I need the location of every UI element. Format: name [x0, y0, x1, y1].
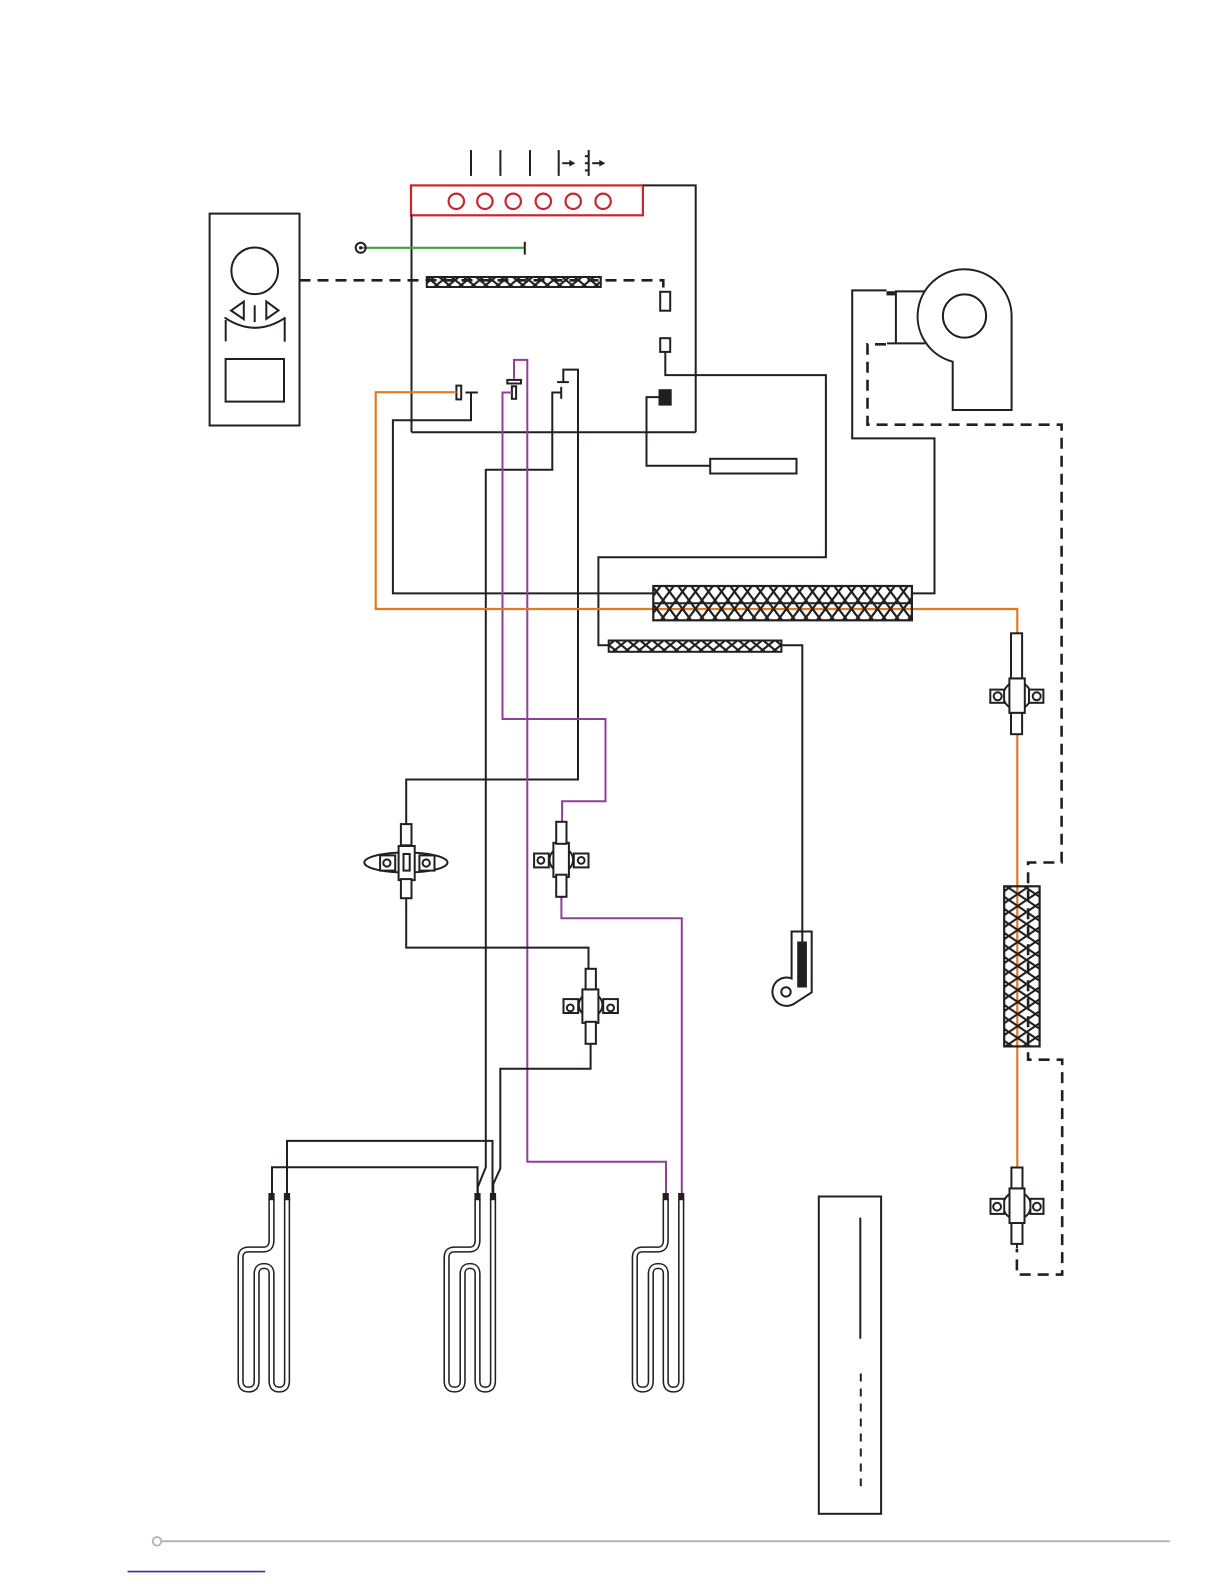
- switch S3 lower contact tick: [560, 387, 562, 399]
- thermostat T4 (high limit on orange): [990, 633, 1043, 734]
- terminal circle 5: [566, 194, 581, 209]
- console box (timer/control panel): [210, 214, 300, 426]
- wire S1 to heater element left: [393, 393, 653, 594]
- igniter coil strip (hatched): [609, 641, 782, 652]
- blower housing: [918, 269, 1012, 410]
- moisture sensor bar (tall rectangle): [819, 1197, 881, 1514]
- knob rotation symbol right triangle: [266, 302, 278, 320]
- console display window: [226, 359, 284, 402]
- orange wire T4 through vertical element to T5: [1016, 734, 1018, 1167]
- blower motor assembly: [887, 269, 1012, 410]
- buzzer: [710, 459, 796, 474]
- ground terminal tick: [524, 242, 526, 255]
- motor box: [887, 291, 925, 344]
- footer rule: [153, 1537, 1170, 1546]
- terminal circle 4: [536, 194, 551, 209]
- terminal circle 2: [477, 194, 492, 209]
- switch S3 moving contact bar: [557, 381, 569, 383]
- purple wire T2 bottom to coil 3 right: [561, 897, 681, 1194]
- resistor strip R1 (hatched): [427, 277, 601, 287]
- arc end tick right: [284, 318, 286, 342]
- motor terminal: [887, 291, 895, 295]
- wire coil1 left to coil2 left: [272, 1167, 478, 1194]
- switch S1 fixed contact: [465, 392, 478, 394]
- heater element main (hatched): [653, 586, 912, 620]
- switch S1 terminal (on orange): [456, 386, 461, 400]
- wire S3 lower to coil junction left: [478, 393, 561, 1195]
- terminal circle 1: [449, 194, 464, 209]
- dashed harness line console to control: [300, 280, 664, 292]
- ground wire (green): [361, 247, 525, 249]
- wire strip to igniter: [781, 645, 802, 944]
- timer cam tick 1: [470, 150, 472, 176]
- wire S3 top to thermostat T1 top: [406, 370, 578, 824]
- heater coil 3: [635, 1193, 685, 1390]
- terminal circle 3: [506, 194, 521, 209]
- igniter: [772, 932, 811, 1006]
- knob rotation arc: [225, 318, 286, 328]
- wire motor to heater element right: [852, 290, 934, 593]
- control box outline left edge: [411, 215, 413, 432]
- terminal block TB (red): [411, 185, 643, 215]
- timer cam tick 3: [529, 150, 531, 176]
- thermostat T3: [564, 969, 618, 1044]
- push-to-start switch S2 button bar: [507, 380, 521, 384]
- push-to-start switch S2 contact: [512, 386, 516, 399]
- timer cam tick 4 with arrow: [559, 150, 576, 176]
- wire relay to buzzer: [647, 397, 711, 466]
- control box outline bottom edge: [412, 431, 696, 433]
- thermostat T1 (cycling with bracket): [364, 824, 447, 898]
- thermostat T2: [534, 822, 588, 897]
- heater coil 2: [447, 1193, 497, 1390]
- orange wire from S1 to heater and T4: [376, 392, 1018, 633]
- knob rotation symbol bar: [254, 305, 256, 322]
- wire fuse2 to igniter strip loop: [598, 352, 826, 645]
- wire T3 bottom to coil junction right: [493, 1044, 590, 1194]
- ground screw washer: [356, 243, 366, 253]
- control box outline top right and right edge: [643, 185, 696, 432]
- terminal circle 6: [595, 194, 610, 209]
- wire T1 bottom to T3 top: [406, 898, 588, 969]
- thermal fuse pad 2: [660, 338, 670, 352]
- timer cam tick 5 with teeth and arrow: [585, 150, 605, 176]
- thermal fuse pad 1: [660, 292, 670, 311]
- relay contact (filled square): [659, 389, 672, 405]
- timer cam tick 2: [499, 150, 501, 176]
- blower hub: [943, 294, 986, 337]
- dashed motor circuit to T5: [868, 344, 1063, 1274]
- thin purple wire S2 left to thermostat T2: [503, 393, 606, 822]
- footer link underline: [128, 1571, 266, 1573]
- knob rotation symbol left triangle: [231, 302, 244, 320]
- thermostat T5 (bottom right): [991, 1168, 1044, 1249]
- vertical heater element (hatched): [1004, 886, 1039, 1046]
- purple wire S2 top to coil 3 left: [514, 360, 666, 1194]
- wire coil1 right to coil2 right: [287, 1141, 493, 1194]
- timer knob circle: [231, 247, 278, 294]
- heater coil 1: [241, 1193, 291, 1390]
- arc end tick left: [225, 320, 227, 341]
